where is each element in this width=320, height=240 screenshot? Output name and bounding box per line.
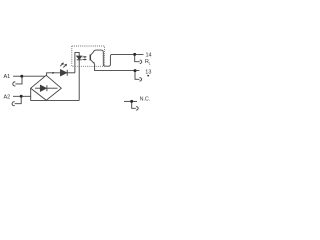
- svg-text:N.C.: N.C.: [140, 96, 150, 102]
- svg-text:14: 14: [146, 52, 152, 58]
- svg-text:A2: A2: [4, 94, 11, 100]
- svg-text:13: 13: [145, 69, 151, 75]
- svg-text:L: L: [149, 62, 151, 66]
- svg-text:A1: A1: [4, 74, 11, 80]
